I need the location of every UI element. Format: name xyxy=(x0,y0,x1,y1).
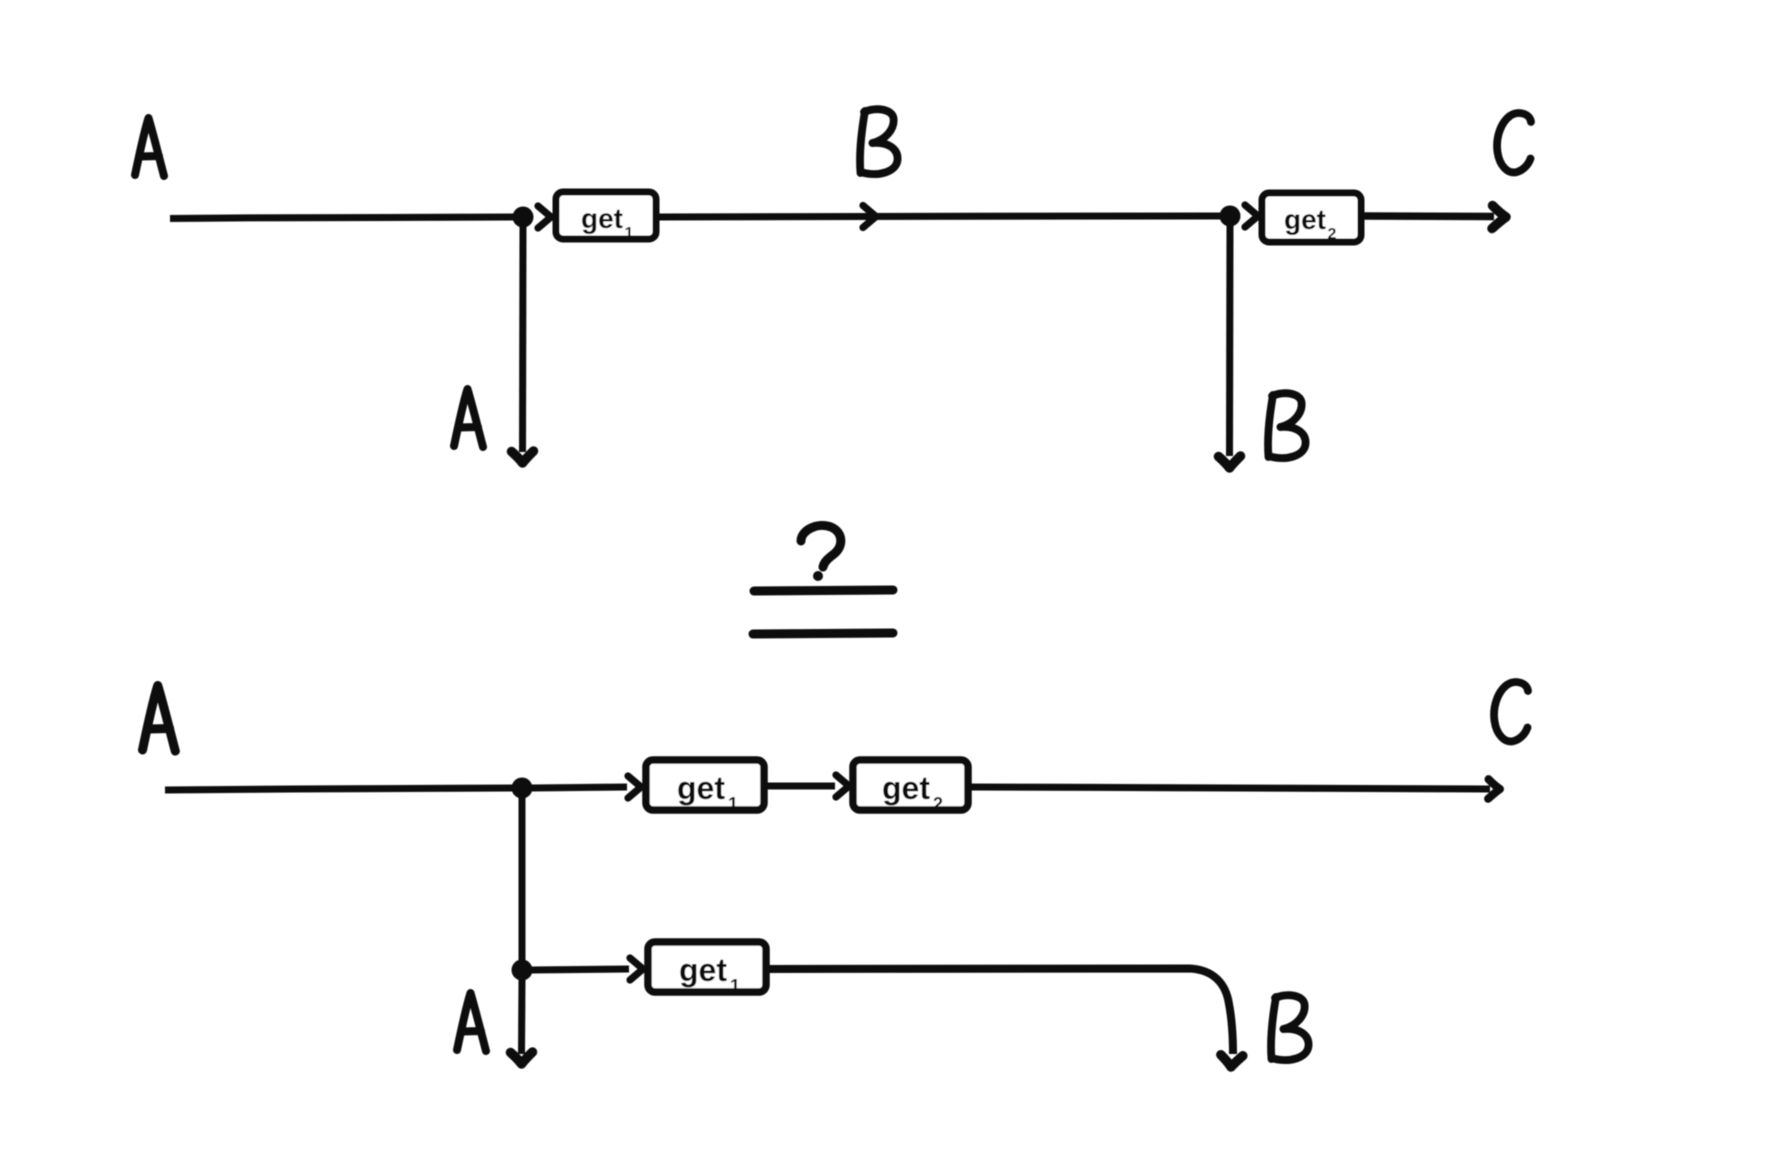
box get2 (bottom) xyxy=(853,760,968,814)
arrowhead down A (top) xyxy=(512,451,534,463)
box get1 (bottom upper path) xyxy=(646,760,764,814)
label C (top-right output) xyxy=(1497,113,1531,172)
wire junction to get1 (bottom upper path) xyxy=(532,787,627,788)
arrowhead down A (bottom) xyxy=(511,1052,533,1064)
arrowhead into get2 (bottom) xyxy=(836,775,849,797)
junction dot (bottom split 2) xyxy=(512,960,533,981)
svg-text:2: 2 xyxy=(933,794,943,814)
equals sign bottom bar xyxy=(753,633,893,634)
wire split down (bottom) xyxy=(519,793,526,965)
svg-text:1: 1 xyxy=(625,225,634,242)
equals sign top bar xyxy=(754,590,893,591)
svg-text:1: 1 xyxy=(730,976,740,996)
wire get2 to C (top) xyxy=(1362,212,1494,220)
wire split continue down to A (bottom) xyxy=(518,980,526,1054)
svg-text:get: get xyxy=(677,770,725,806)
arrowhead to C (top) xyxy=(1492,206,1506,229)
svg-text:get: get xyxy=(581,203,623,234)
arrowhead into get1 (top) xyxy=(538,206,551,228)
label B (bottom output) xyxy=(1271,995,1309,1060)
wire get1 to get2 (bottom) xyxy=(764,783,835,790)
wire get2 to C (bottom) xyxy=(967,787,1490,789)
label B (top mid) xyxy=(860,109,898,174)
arrowhead into get1 (bottom upper path) xyxy=(628,776,641,798)
junction dot (top split) xyxy=(513,207,534,228)
junction dot (bottom split 1) xyxy=(512,778,533,799)
wire A input (bottom) xyxy=(165,788,513,790)
svg-text:get: get xyxy=(679,952,727,988)
arrowhead mid wire B (top) xyxy=(863,206,876,228)
junction dot (top B split) xyxy=(1220,206,1241,227)
svg-text:get: get xyxy=(882,770,930,806)
svg-text:1: 1 xyxy=(728,794,738,814)
wire get1 to B curve (bottom) xyxy=(766,969,1233,1055)
box get1 (bottom lower path) xyxy=(648,942,766,996)
wire split down to B (top) xyxy=(1226,222,1234,456)
label A (top-left input) xyxy=(135,118,164,176)
svg-text:get: get xyxy=(1284,204,1326,235)
wire split down to A (top) xyxy=(519,222,527,452)
label A (bottom input) xyxy=(143,686,176,752)
label C (bottom output) xyxy=(1494,682,1528,741)
arrowhead into get2 (top) xyxy=(1245,205,1258,227)
label A (bottom branch output) xyxy=(457,993,486,1051)
arrowhead down B (top) xyxy=(1219,456,1241,468)
box get2 (top) xyxy=(1262,193,1361,243)
arrowhead to C (bottom) xyxy=(1488,779,1500,799)
question mark xyxy=(801,525,841,567)
label A (top branch output) xyxy=(454,389,483,447)
svg-text:2: 2 xyxy=(1328,226,1337,243)
wire A input (top) xyxy=(170,217,513,219)
box get1 (top) xyxy=(556,192,656,242)
arrowhead into get1 (bottom lower path) xyxy=(630,958,643,980)
arrowhead to B (bottom, down) xyxy=(1220,1054,1243,1068)
label B (top branch output) xyxy=(1268,393,1306,458)
wire junction to get1 (bottom lower path) xyxy=(532,969,629,970)
wire get1 to get2 (top, node B) xyxy=(659,216,1220,217)
